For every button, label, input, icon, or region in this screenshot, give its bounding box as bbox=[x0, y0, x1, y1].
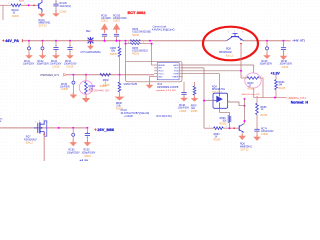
ground arrow thermistor bbox=[82, 96, 90, 103]
pin number RR63 1 bbox=[209, 126, 210, 128]
svg-text:2: 2 bbox=[261, 76, 262, 78]
label RR242 bbox=[88, 86, 96, 91]
wire PGD right bbox=[183, 70, 242, 72]
label RC42 bbox=[37, 61, 50, 66]
label RC74 partno bbox=[261, 134, 268, 136]
label RC43 partno bbox=[53, 67, 60, 69]
svg-text:R1005: R1005 bbox=[261, 115, 268, 117]
label RR79 partno bbox=[132, 35, 139, 37]
svg-text:VWF2.5V/B: VWF2.5V/B bbox=[123, 82, 137, 86]
wire RC46 low bbox=[283, 50, 285, 54]
bus bottom bbox=[0, 127, 87, 129]
label RC44 partno bbox=[67, 67, 74, 69]
junction 2nd bus b bbox=[85, 74, 87, 76]
wire PADFG bbox=[254, 97, 287, 99]
wire PWR down bbox=[219, 74, 221, 94]
ground arrow RQ6 bbox=[238, 133, 246, 140]
wire RC106 bottom bbox=[55, 6, 57, 12]
wire branch RC44 bbox=[69, 41, 71, 47]
label RC50 bbox=[82, 150, 96, 155]
label RQ7 bbox=[26, 136, 31, 138]
svg-text:R1005: R1005 bbox=[103, 85, 110, 87]
svg-text:MMBT5401: MMBT5401 bbox=[39, 23, 52, 25]
resistor RR43 bbox=[247, 77, 259, 80]
svg-text:OVLO: OVLO bbox=[158, 74, 164, 76]
label RR79 value bbox=[132, 32, 151, 34]
svg-text:6.022/1W/3216: 6.022/1W/3216 bbox=[132, 51, 148, 53]
wire RC45 low bbox=[266, 50, 268, 53]
capacitor RC60 bbox=[72, 133, 75, 136]
wire RR43 right bbox=[259, 78, 263, 98]
svg-text:6.022/1W/3216(B): 6.022/1W/3216(B) bbox=[132, 32, 151, 34]
junction bus x116.5 bbox=[116, 40, 118, 42]
capacitor RC43 bbox=[53, 46, 58, 52]
svg-text:49.4V/61/2.5V/B(*)(92k+62k: 49.4V/61/2.5V/B(*)(92k+62k bbox=[121, 113, 151, 115]
junction bottom c bbox=[86, 127, 88, 129]
label RC46 bbox=[280, 61, 293, 65]
svg-text:+3.3V: +3.3V bbox=[80, 159, 90, 161]
wire RR60 top bbox=[119, 41, 121, 47]
junction RR70 left bbox=[125, 43, 127, 45]
label RC45 bbox=[260, 61, 273, 65]
svg-text:P3N10NXLF: P3N10NXLF bbox=[24, 139, 37, 141]
pin number 2 bbox=[25, 3, 26, 5]
wire collector join bbox=[243, 122, 246, 125]
ic U LM5069 bbox=[157, 63, 179, 80]
capacitor RC030 bbox=[114, 34, 119, 36]
ground arrow under RQ10 bbox=[38, 12, 46, 17]
ground arrow RC44 bbox=[66, 53, 74, 59]
junction bus x125.5 bbox=[125, 40, 127, 42]
svg-text:CTH-G2R1025Z0A: CTH-G2R1025Z0A bbox=[80, 51, 101, 54]
wire RR60 bottom bbox=[119, 57, 121, 75]
label RR98 bbox=[116, 103, 123, 107]
svg-text:C3216: C3216 bbox=[282, 67, 289, 69]
svg-text:1: 1 bbox=[9, 3, 10, 5]
ground arrow RC48 bbox=[180, 96, 188, 101]
svg-text:C1608: C1608 bbox=[61, 89, 68, 91]
ground arrow RR98 bbox=[115, 95, 125, 101]
label RR43 partno bbox=[248, 88, 255, 90]
resistor RR122 bbox=[11, 4, 21, 7]
resistor RR95 bbox=[256, 103, 259, 114]
label RR60 bbox=[110, 48, 117, 53]
svg-text:2: 2 bbox=[35, 122, 36, 124]
svg-text:4: 4 bbox=[128, 42, 129, 44]
svg-text:RC50: RC50 bbox=[84, 150, 91, 152]
svg-text:ECT 3662: ECT 3662 bbox=[128, 10, 147, 15]
red note uvlo bbox=[156, 89, 176, 92]
label RR98 partno bbox=[116, 109, 123, 111]
wire RC36 low bbox=[72, 84, 74, 92]
note OVLO bbox=[121, 110, 151, 118]
label RC43 bbox=[50, 61, 62, 66]
resistor RR96 bbox=[228, 116, 231, 123]
svg-text:C1608: C1608 bbox=[179, 111, 186, 113]
label RR95 bbox=[261, 107, 268, 111]
label RC030 bbox=[113, 15, 127, 20]
svg-text:C1608: C1608 bbox=[60, 12, 67, 14]
svg-text:PADFG_N71: PADFG_N71 bbox=[289, 96, 307, 100]
red note 5 bbox=[257, 96, 259, 99]
bus PhDISCEN bbox=[67, 74, 154, 76]
wire RC44 low bbox=[69, 50, 71, 53]
svg-text:RU4: RU4 bbox=[158, 84, 163, 86]
junction bus x42.5 bbox=[42, 40, 44, 42]
wire RC09 to bus bbox=[104, 36, 106, 41]
wire RC42 low bbox=[42, 50, 44, 53]
ground arrow RC36 bbox=[70, 92, 78, 98]
red node RQ6 base bbox=[233, 127, 235, 129]
power arrow up RC030 bbox=[113, 24, 121, 34]
label +44V_AT1 bbox=[289, 39, 305, 43]
label RQ10 bbox=[39, 20, 52, 25]
capacitor C RC106 bbox=[53, 4, 58, 6]
label RR95 partno bbox=[261, 115, 268, 117]
ground arrow RC50 bbox=[84, 140, 92, 146]
label RR94 bbox=[279, 82, 286, 87]
junction PADFG bbox=[274, 97, 276, 99]
capacitor RC09 bbox=[102, 34, 107, 36]
pin number RR70 a bbox=[128, 42, 129, 44]
ground arrow under RC106 bbox=[52, 12, 60, 17]
svg-text:4.4A/5A/1.6A@11mO: 4.4A/5A/1.6A@11mO bbox=[152, 28, 175, 31]
pin tick RC106 bottom bbox=[55, 10, 56, 12]
ground arrow RC45 bbox=[263, 53, 271, 59]
wire GND pin bbox=[150, 77, 155, 83]
svg-text:R=0.3K(/3.3K): R=0.3K(/3.3K) bbox=[157, 115, 172, 118]
note current limit bbox=[152, 25, 175, 31]
resistor RR63 bbox=[214, 127, 224, 130]
label RR79 bbox=[132, 29, 139, 31]
transistor Q RQ10 bbox=[38, 0, 43, 12]
label RC106 bbox=[60, 3, 72, 8]
svg-text:100nF/100V: 100nF/100V bbox=[64, 64, 77, 66]
svg-text:RC60: RC60 bbox=[69, 150, 76, 152]
svg-text:Normal: H: Normal: H bbox=[291, 101, 309, 105]
wire RR95 top bbox=[256, 98, 258, 104]
label RC030 partno bbox=[113, 21, 120, 23]
power tap +44V_PA bbox=[21, 39, 23, 42]
power label +3.3V bottom bbox=[80, 159, 90, 163]
red node RQ7 bbox=[43, 134, 45, 136]
node red junction bbox=[33, 5, 35, 7]
wire OUT down long bbox=[203, 68, 205, 128]
label +3.3V bbox=[271, 71, 281, 75]
label RQ6 bbox=[240, 146, 253, 148]
pin numbers RQ7 bbox=[35, 120, 48, 124]
svg-text:+3.3V: +3.3V bbox=[271, 71, 281, 75]
svg-text:RC106: RC106 bbox=[60, 3, 68, 5]
wire branch RC41 bbox=[28, 41, 30, 47]
wire GATE right bbox=[183, 64, 254, 66]
wire PADFG corner bbox=[253, 88, 255, 97]
wire PWR right bbox=[183, 73, 220, 75]
transistor RQ4 box bbox=[213, 93, 228, 108]
svg-text:3: 3 bbox=[221, 92, 222, 94]
wire RQ8 base down bbox=[240, 44, 242, 78]
ground arrow RR97 bbox=[191, 96, 199, 101]
junction 2nd bus a bbox=[72, 74, 74, 76]
junction RC030 bbox=[116, 40, 118, 42]
svg-text:RUN:26V=44V +5V: RUN:26V=44V +5V bbox=[88, 89, 109, 92]
capacitor RC74 bbox=[254, 129, 259, 131]
label RC36 bbox=[60, 84, 70, 88]
wire RC030 to bus bbox=[116, 36, 118, 41]
label RC09 bbox=[101, 15, 111, 20]
svg-text:1K: 1K bbox=[13, 13, 16, 15]
ground arrow RC42 bbox=[39, 53, 47, 59]
svg-text:C3216: C3216 bbox=[84, 156, 91, 158]
node junction on top wire bbox=[28, 4, 30, 6]
svg-text:C2012: C2012 bbox=[101, 21, 108, 23]
svg-text:SOT-23: SOT-23 bbox=[241, 150, 250, 152]
wire top-left horizontal bbox=[0, 4, 38, 6]
resistor RR60 bbox=[118, 47, 121, 57]
wire RR96 low bbox=[229, 123, 231, 129]
label RE2 bbox=[86, 31, 91, 33]
svg-text:OVLO: OVLO bbox=[121, 110, 128, 112]
label RR60 partno bbox=[110, 54, 117, 56]
pin number RQ8 3 bbox=[242, 32, 243, 34]
label RC48 bbox=[178, 105, 190, 109]
resistor RR70 bbox=[130, 43, 140, 45]
junction RQ4 left bbox=[203, 100, 205, 102]
svg-text:RR70: RR70 bbox=[132, 48, 139, 50]
junction RQ6 collector bbox=[244, 120, 246, 122]
label RQ7 partno bbox=[26, 143, 34, 145]
svg-text:R1005: R1005 bbox=[12, 16, 19, 18]
label RC44 bbox=[64, 61, 77, 66]
ic pin stubs bbox=[154, 65, 183, 77]
svg-text:62m_2: 62m_2 bbox=[226, 56, 234, 58]
label RR96 partno bbox=[220, 123, 227, 125]
svg-text:PGD: PGD bbox=[174, 71, 179, 73]
bus +44V_PA right bbox=[244, 40, 290, 42]
svg-text:2: 2 bbox=[226, 126, 227, 128]
svg-text:C3216: C3216 bbox=[53, 67, 60, 69]
pin number RR43 2 bbox=[261, 76, 262, 78]
label +26V_M66 bbox=[94, 127, 114, 132]
wire rect feed bbox=[125, 44, 127, 62]
svg-text:1000pF/100V: 1000pF/100V bbox=[113, 18, 127, 20]
capacitor RC48 bbox=[181, 93, 186, 95]
svg-text:100pF/250V: 100pF/250V bbox=[37, 64, 50, 66]
svg-text:RQ6: RQ6 bbox=[240, 144, 245, 146]
transistor RQ6 bbox=[239, 124, 244, 133]
wire RR70 corner bbox=[126, 41, 131, 44]
junction bus x104.5 bbox=[104, 40, 106, 42]
wire RR95 low bbox=[256, 115, 258, 130]
label RR43 bbox=[248, 83, 255, 87]
junction collector upper bbox=[244, 98, 246, 100]
junction RE2 bbox=[90, 40, 92, 42]
note VWF bbox=[123, 82, 137, 86]
wire RC41 low bbox=[28, 50, 30, 53]
junction RR70 right bbox=[151, 43, 153, 45]
label RR122 partno bbox=[12, 16, 19, 18]
junction RR79 bus right bbox=[149, 40, 151, 42]
bus +44V_PA left bbox=[22, 40, 226, 42]
label RR96 bbox=[220, 118, 227, 123]
label RR63 bbox=[214, 134, 221, 138]
red note run bbox=[88, 89, 109, 92]
label RC46 partno bbox=[282, 67, 289, 69]
wire RQ4 bottom bbox=[220, 108, 230, 112]
ground arrow RE2 bbox=[87, 44, 94, 50]
ground arrow RC46 bbox=[280, 54, 288, 61]
label RR97 bbox=[191, 106, 198, 110]
net label PADFG_N71 bbox=[286, 96, 306, 100]
capacitor RC45 bbox=[266, 47, 269, 50]
svg-text:100pF/250V: 100pF/250V bbox=[67, 152, 80, 154]
pin number RR63 2 bbox=[226, 126, 227, 128]
wire RC60 low bbox=[72, 136, 74, 140]
wire RR98 low bbox=[119, 92, 121, 95]
wire branch RC42 bbox=[42, 41, 44, 47]
svg-text:R1005: R1005 bbox=[110, 54, 117, 56]
junction bottom a bbox=[58, 127, 60, 129]
label RR70 bbox=[132, 48, 139, 50]
wire bottom right bbox=[204, 127, 214, 129]
label RR122 value bbox=[12, 10, 20, 15]
pin number RQ8 2 bbox=[228, 32, 229, 34]
svg-text:2: 2 bbox=[25, 3, 26, 5]
ground arrow RC41 bbox=[25, 53, 33, 59]
svg-text:RR242: RR242 bbox=[88, 86, 96, 88]
wire +3.3V down bbox=[275, 75, 277, 80]
junction bottom b bbox=[72, 127, 74, 129]
svg-text:PBSS5540Z: PBSS5540Z bbox=[219, 52, 232, 54]
wire RR97 top bbox=[194, 82, 196, 86]
svg-text:SOT-23: SOT-23 bbox=[39, 26, 48, 28]
pin number RQ4 3 bbox=[221, 92, 222, 94]
svg-text:R1005: R1005 bbox=[279, 88, 286, 90]
svg-text:4: 4 bbox=[39, 121, 40, 123]
svg-text:uvp/what_h 3.3_0k5: uvp/what_h 3.3_0k5 bbox=[156, 89, 176, 92]
svg-text:GATE: GATE bbox=[173, 64, 179, 67]
label RQ4 bbox=[212, 87, 225, 91]
svg-text:3: 3 bbox=[242, 32, 243, 34]
junction PGD bbox=[240, 70, 242, 72]
junction RC09 bbox=[104, 40, 106, 42]
svg-text:100nF/100V: 100nF/100V bbox=[261, 131, 274, 133]
junction bus x70 bbox=[69, 40, 71, 42]
group box bbox=[126, 61, 183, 82]
crystal RE2 on bus bbox=[87, 37, 94, 44]
svg-text:PhDISCEN_N71: PhDISCEN_N71 bbox=[41, 74, 60, 77]
junction 2nd bus c bbox=[119, 74, 121, 76]
svg-text:44V_PA: 44V_PA bbox=[5, 39, 19, 43]
wire RR70 to IC bbox=[140, 44, 154, 65]
label RR246 partno bbox=[103, 85, 110, 87]
capacitor RC36 bbox=[72, 81, 75, 84]
wire RQ4 right bbox=[228, 102, 245, 106]
wire thermistor low bbox=[85, 94, 87, 96]
label RQ6 partno bbox=[241, 150, 250, 152]
svg-text:3: 3 bbox=[47, 122, 48, 124]
svg-text:10K: 10K bbox=[222, 120, 227, 122]
note Normal H bbox=[291, 101, 309, 105]
svg-text:R1005: R1005 bbox=[191, 111, 198, 113]
svg-text:1: 1 bbox=[234, 31, 235, 33]
label RC41 bbox=[23, 61, 35, 66]
net label PhDISCEN_N71 bbox=[41, 73, 67, 76]
wire RC60 bbox=[72, 128, 74, 133]
pin number RR70 b bbox=[143, 42, 144, 44]
pin number RQ8 1 bbox=[234, 31, 235, 33]
svg-text:100nF/50V: 100nF/50V bbox=[178, 108, 190, 110]
wire GATE down bbox=[253, 65, 255, 73]
junction right bus 1 bbox=[266, 40, 268, 42]
resistor RR97 bbox=[193, 86, 196, 95]
label RQ10 package bbox=[39, 26, 48, 28]
svg-text:100nF/100V: 100nF/100V bbox=[280, 64, 293, 66]
wire RC48 low bbox=[183, 94, 185, 96]
wire RC50 low bbox=[86, 136, 88, 140]
label RQ8 bbox=[226, 48, 231, 50]
wire RC43 low bbox=[55, 50, 57, 53]
svg-text:TIMER: TIMER bbox=[172, 76, 179, 78]
wire collector vertical bbox=[244, 106, 246, 124]
svg-text:2: 2 bbox=[143, 42, 144, 44]
capacitor RC41 bbox=[28, 47, 31, 50]
ground arrow RC43 bbox=[52, 53, 60, 59]
junction RR96 bottom bbox=[229, 127, 231, 129]
thermistor circle bbox=[79, 81, 93, 95]
svg-text:LM5069MM-1/NOPB: LM5069MM-1/NOPB bbox=[157, 87, 179, 89]
label RR63 partno bbox=[214, 139, 221, 141]
thermistor resistor bbox=[85, 82, 88, 94]
label RC09 partno bbox=[101, 21, 108, 23]
svg-text:1: 1 bbox=[43, 120, 44, 122]
red annotation top edge bbox=[19, 1, 25, 3]
label RR242 partno bbox=[100, 86, 107, 88]
label thermistor part bbox=[80, 51, 101, 54]
label RR97 partno bbox=[191, 111, 198, 113]
svg-text:1: 1 bbox=[209, 126, 210, 128]
power arrow up RC09 bbox=[101, 24, 109, 34]
transistor RQ8 bbox=[227, 33, 244, 40]
ground arrow IC bbox=[146, 83, 154, 89]
wire RR43 left bbox=[241, 77, 247, 79]
junction right bus 2 bbox=[283, 40, 285, 42]
label RU4 bbox=[158, 84, 163, 86]
label RQ6 ref bbox=[240, 144, 245, 146]
svg-text:PWR: PWR bbox=[174, 74, 179, 76]
wire RC48 bbox=[183, 82, 185, 92]
label RQ7 part bbox=[24, 139, 37, 141]
svg-text:R3216: R3216 bbox=[132, 35, 139, 37]
resistor RR98 bbox=[118, 82, 121, 92]
svg-text:10nF/100V: 10nF/100V bbox=[50, 64, 62, 66]
wire RQ4 left bbox=[204, 100, 213, 102]
ground arrow RC60 bbox=[69, 140, 77, 146]
svg-text:10nF/50V: 10nF/50V bbox=[60, 86, 70, 88]
svg-text:RR79: RR79 bbox=[132, 29, 139, 31]
pin number RQ4 2 bbox=[229, 100, 230, 102]
svg-text:60m_2: 60m_2 bbox=[26, 143, 34, 145]
red node under RQ8 bbox=[240, 43, 242, 45]
wire OUT right bbox=[183, 67, 205, 69]
label RR94 partno bbox=[279, 88, 286, 90]
svg-text:C2012: C2012 bbox=[113, 21, 120, 23]
resistor RR79 in bus bbox=[130, 40, 140, 42]
svg-text:UVLO: UVLO bbox=[158, 71, 164, 73]
pin number RQ4 1 bbox=[209, 99, 210, 101]
svg-text:RE2: RE2 bbox=[86, 31, 91, 33]
label RQ8 partno bbox=[226, 56, 234, 58]
